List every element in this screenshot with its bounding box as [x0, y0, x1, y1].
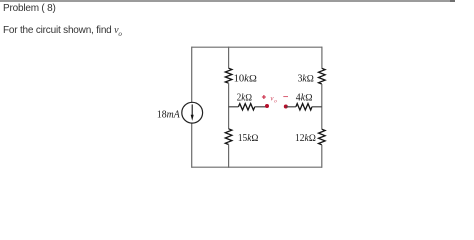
resistor R 15k	[225, 129, 232, 145]
label vo (red)	[270, 94, 277, 104]
label 3kΩ	[298, 74, 315, 85]
top border line	[0, 0, 450, 2]
wire: right branch top (node to 3k)	[321, 47, 323, 69]
label 10kΩ	[234, 74, 258, 85]
wire: mid horizontal from middle branch to 2k	[229, 106, 239, 108]
svg-text:18mA: 18mA	[157, 110, 181, 121]
svg-text:12kΩ: 12kΩ	[295, 133, 316, 144]
label + (red polarity)	[262, 95, 266, 99]
resistor R 2k	[238, 104, 254, 110]
resistor R 12k	[319, 129, 326, 145]
wire: middle branch between 10k and 15k	[228, 83, 230, 129]
wire: middle branch top (node to 10k)	[228, 47, 230, 69]
svg-text:o: o	[274, 100, 277, 105]
label 4kΩ	[296, 93, 313, 104]
label 12kΩ	[295, 133, 316, 144]
resistor R 4k	[296, 104, 312, 110]
svg-text:15kΩ: 15kΩ	[238, 133, 259, 144]
svg-text:2kΩ: 2kΩ	[237, 93, 253, 104]
title: Problem ( 8)	[3, 3, 56, 14]
node b (red terminal dot)	[284, 105, 288, 109]
wire: left branch above current source	[191, 47, 193, 103]
node a (red terminal dot)	[265, 104, 269, 108]
wire: left branch below current source	[191, 123, 193, 168]
wire: middle branch below 15k	[228, 145, 230, 168]
wire: right branch below 12k	[321, 145, 323, 168]
wire: right branch between 3k and 12k	[321, 84, 323, 129]
caption: For the circuit shown, find vo	[3, 25, 122, 38]
resistor R 3k	[319, 68, 326, 84]
current source arrow (downward)	[191, 104, 194, 121]
svg-text:4kΩ: 4kΩ	[296, 93, 313, 104]
wire: 4k to right branch	[312, 106, 322, 108]
label − (red polarity)	[283, 96, 288, 98]
wire: 2k to node a	[255, 106, 267, 108]
label 18mA	[157, 110, 181, 121]
svg-text:10kΩ: 10kΩ	[234, 74, 258, 85]
svg-text:3kΩ: 3kΩ	[298, 74, 315, 85]
current source I1 circle	[182, 102, 203, 123]
wire: node b to 4k	[286, 106, 296, 108]
label 15kΩ	[238, 133, 259, 144]
label 2kΩ	[237, 93, 253, 104]
wire: top horizontal	[192, 46, 322, 48]
resistor R 10k	[225, 68, 232, 83]
wire: bottom horizontal	[192, 166, 322, 168]
